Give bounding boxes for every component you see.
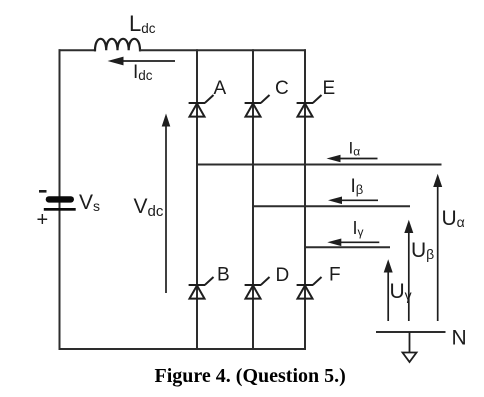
wire node N bus bbox=[377, 331, 445, 333]
wire phase line alpha bbox=[197, 164, 441, 166]
ground bbox=[403, 332, 417, 362]
svg-text:F: F bbox=[329, 265, 341, 286]
svg-text:Idc: Idc bbox=[133, 62, 153, 83]
svg-text:Ldc: Ldc bbox=[129, 11, 156, 36]
svg-text:D: D bbox=[276, 265, 290, 286]
svg-text:+: + bbox=[37, 209, 49, 231]
inductor L_dc bbox=[95, 39, 140, 50]
thyristor D bbox=[245, 277, 270, 299]
svg-text:Iα: Iα bbox=[349, 139, 361, 159]
svg-text:Iβ: Iβ bbox=[351, 176, 364, 197]
thyristor F bbox=[297, 277, 322, 299]
current arrow I_alpha bbox=[327, 155, 378, 163]
wire top bus right segment bbox=[140, 49, 305, 51]
wire left vertical bbox=[59, 50, 61, 349]
wire phase line beta bbox=[253, 205, 409, 207]
thyristor E bbox=[297, 95, 322, 117]
thyristor B bbox=[189, 277, 214, 299]
arrow V_dc bbox=[162, 114, 171, 294]
wire phase line gamma bbox=[305, 246, 389, 248]
battery V_s bbox=[44, 196, 76, 211]
label minus of V_s bbox=[39, 190, 47, 193]
wire leg 2 bbox=[252, 50, 254, 349]
wire leg 3 bbox=[304, 50, 306, 349]
svg-text:Vs: Vs bbox=[79, 191, 100, 214]
thyristor C bbox=[245, 95, 270, 117]
svg-text:A: A bbox=[214, 78, 227, 99]
wire leg 1 bbox=[196, 50, 198, 349]
wire top bus left segment bbox=[60, 49, 96, 51]
voltage arrow U_gamma bbox=[384, 259, 393, 321]
wire bottom bus bbox=[60, 348, 306, 350]
svg-text:B: B bbox=[217, 265, 230, 286]
voltage arrow U_beta bbox=[404, 220, 413, 321]
svg-text:C: C bbox=[275, 78, 289, 99]
current arrow I_dc bbox=[108, 57, 176, 66]
svg-text:E: E bbox=[323, 78, 336, 99]
svg-text:Iγ: Iγ bbox=[353, 218, 364, 239]
svg-text:Uα: Uα bbox=[442, 207, 465, 230]
svg-text:Figure 4. (Question 5.): Figure 4. (Question 5.) bbox=[155, 365, 346, 387]
svg-text:Vdc: Vdc bbox=[134, 195, 164, 220]
svg-text:Uβ: Uβ bbox=[411, 239, 434, 262]
current arrow I_beta bbox=[328, 197, 378, 205]
svg-text:N: N bbox=[452, 327, 467, 350]
voltage arrow U_alpha bbox=[433, 174, 442, 321]
current arrow I_gamma bbox=[327, 239, 379, 247]
thyristor A bbox=[189, 95, 214, 117]
